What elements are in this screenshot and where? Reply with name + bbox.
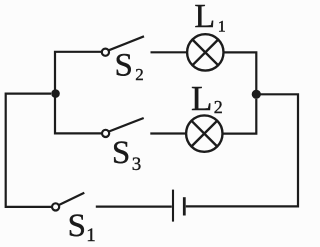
svg-text:S: S [115, 48, 133, 84]
svg-text:3: 3 [132, 154, 142, 175]
switch S1 [52, 193, 84, 211]
lamp L1 [187, 34, 223, 70]
lamp L2 [186, 115, 222, 151]
label S1 [68, 208, 96, 246]
svg-text:1: 1 [218, 19, 226, 36]
svg-text:2: 2 [214, 97, 223, 117]
node (left junction) [51, 89, 60, 98]
node (right junction) [252, 90, 261, 99]
label S3 [112, 135, 141, 175]
wire [55, 94, 102, 134]
battery [173, 190, 184, 222]
wire [96, 206, 172, 208]
label S2 [115, 48, 144, 84]
wire [150, 132, 186, 134]
svg-text:2: 2 [135, 65, 144, 84]
wire [6, 94, 52, 207]
wire [55, 52, 102, 95]
wire [223, 99, 257, 134]
switch S2 [102, 36, 144, 56]
switch S3 [102, 118, 144, 137]
wire [151, 51, 188, 53]
svg-text:S: S [68, 208, 86, 244]
wire [186, 94, 298, 206]
svg-text:L: L [194, 0, 215, 35]
svg-text:L: L [191, 79, 212, 118]
label L1 [194, 0, 225, 36]
svg-text:1: 1 [86, 225, 96, 246]
svg-text:S: S [112, 135, 130, 171]
label L2 [191, 79, 223, 118]
wire [224, 52, 257, 94]
